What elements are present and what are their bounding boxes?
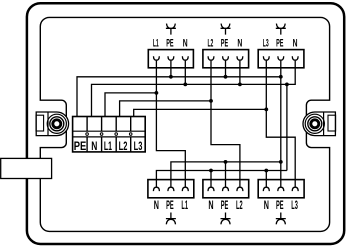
contact top1 L1 (154, 56, 160, 68)
labels bottom blocks (154, 198, 298, 212)
contact bot3 PE (278, 180, 284, 192)
contact bot3 L3 (292, 180, 298, 192)
contact bot1 PE (168, 180, 174, 192)
contact top2 PE (223, 56, 229, 68)
junction dots (155, 75, 289, 173)
left mounting lug (36, 112, 69, 136)
node PEbot/2 (224, 160, 228, 164)
svg-text:PE: PE (74, 139, 87, 153)
wire N feeder (286, 84, 288, 170)
terminal block bottom 3 (258, 180, 304, 198)
outlet symbol bottom1 (166, 213, 176, 225)
wire top1 N drop (184, 68, 186, 85)
svg-text:L3: L3 (134, 139, 143, 153)
contact bot3 N (263, 180, 269, 192)
wire L2 drop+jog (211, 68, 240, 180)
node N/top2 (238, 83, 242, 87)
right mounting lug (303, 112, 336, 136)
contact bot1 L1 (182, 180, 188, 192)
contact top3 N (292, 56, 298, 68)
svg-text:L3: L3 (263, 37, 269, 49)
svg-text:L1: L1 (104, 139, 112, 153)
wire bottom N bus (156, 171, 287, 180)
wire PE riser+top bus (77, 77, 281, 117)
contact top3 L3 (263, 56, 269, 68)
node PE/top2 (224, 75, 228, 79)
spring clamp contacts top blocks (154, 56, 299, 68)
wire top2 N drop (239, 68, 241, 85)
svg-text:N: N (183, 37, 188, 49)
outlet symbol bottom2 (221, 213, 231, 225)
contact top1 PE (168, 56, 174, 68)
terminal block top 1 (148, 50, 193, 68)
enclosure inner wall with side notches (40, 17, 329, 231)
strip labels (74, 139, 143, 153)
svg-text:L3: L3 (291, 198, 298, 212)
contact bot2 PE (223, 180, 229, 192)
contact bot1 N (153, 180, 159, 192)
svg-text:PE: PE (166, 198, 174, 212)
svg-text:L1: L1 (153, 37, 159, 49)
wire L1 riser+bus (105, 93, 156, 117)
node PE/top3 (279, 75, 283, 79)
svg-text:L2: L2 (207, 37, 213, 49)
node L3 (264, 108, 268, 112)
wire top1 PE drop (170, 68, 172, 77)
outlet symbol top2 (221, 24, 231, 35)
terminal block top 2 (203, 50, 249, 68)
node L2 (209, 99, 213, 103)
wire bottom3 N drop (265, 171, 267, 180)
outlet symbol bottom3 (276, 213, 286, 225)
contact top3 PE (278, 56, 284, 68)
node PEbot/3 (279, 160, 283, 164)
node PE/top1 (169, 75, 173, 79)
svg-text:N: N (154, 198, 159, 212)
outlet symbol top3 (276, 24, 286, 35)
contact bot2 L2 (237, 180, 243, 192)
spring clamp contacts bottom blocks (153, 180, 298, 192)
node N/top1 (183, 83, 187, 87)
outlet symbols bottom (166, 213, 286, 225)
svg-text:N: N (237, 37, 242, 49)
terminal block bottom 1 (148, 180, 194, 198)
wire L3 drop+jog (266, 68, 295, 180)
strip dividers (87, 117, 131, 152)
wire PE feeder through (280, 68, 282, 180)
terminal block top 3 (258, 50, 304, 68)
wire top2 PE drop (225, 68, 227, 77)
terminal block bottom 2 (203, 180, 249, 198)
svg-text:PE: PE (221, 37, 228, 49)
svg-text:PE: PE (276, 198, 284, 212)
left cable entry stub (1, 158, 52, 178)
wire L1 drop+jog (156, 68, 185, 180)
contact top2 N (237, 56, 243, 68)
wire N riser+top bus (92, 68, 296, 117)
labels top blocks (153, 37, 298, 49)
svg-text:PE: PE (276, 37, 283, 49)
svg-text:L1: L1 (181, 198, 188, 212)
outlet symbol top1 (166, 24, 176, 35)
contact top2 L2 (208, 56, 214, 68)
svg-text:N: N (91, 139, 97, 153)
node N/feeder (285, 83, 289, 87)
svg-text:N: N (293, 37, 298, 49)
wire bottom PE bus (171, 162, 281, 180)
node L1 (155, 91, 159, 95)
wire L3 riser+bus (134, 109, 267, 116)
wire bottom2 N drop (210, 171, 212, 180)
contact top1 N (182, 56, 188, 68)
svg-text:PE: PE (166, 37, 173, 49)
contact bot2 N (208, 180, 214, 192)
svg-text:N: N (208, 198, 213, 212)
node Nbot/2 (209, 169, 213, 173)
wire L2 riser+bus (120, 101, 211, 117)
input terminal strip (73, 117, 146, 153)
outlet symbols top (166, 24, 286, 35)
wire bottom2 PE drop (225, 162, 227, 180)
svg-text:N: N (264, 198, 269, 212)
node Nbot/3 (264, 169, 268, 173)
strip bridge circles (86, 133, 132, 136)
svg-text:PE: PE (221, 198, 229, 212)
svg-text:L2: L2 (119, 139, 128, 153)
svg-text:L2: L2 (236, 198, 243, 212)
